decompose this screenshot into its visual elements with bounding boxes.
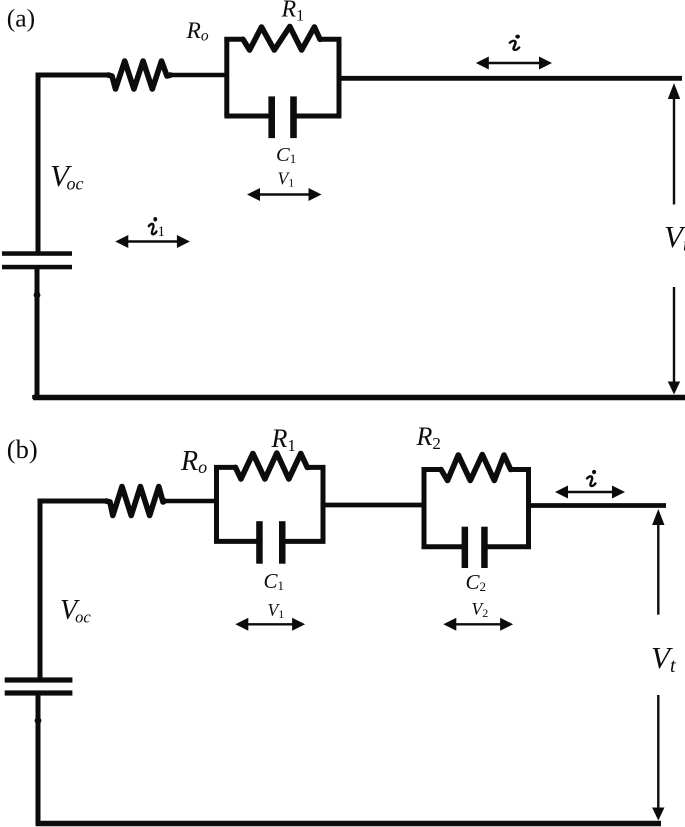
current arrow i1 (a)	[115, 235, 190, 248]
node: RC box 1 (b) right branch vertical	[321, 465, 326, 541]
wire: RC box (a) bottom-left segment	[224, 114, 269, 119]
wire: (b) bottom rail	[36, 821, 661, 827]
voltage arrow V2 (b)	[443, 618, 513, 631]
wire: RC box 1 (b) bottom-left segment	[214, 539, 257, 544]
wire: between RC box 1 and RC box 2 (b)	[323, 503, 426, 508]
svg-text:(a): (a)	[7, 3, 35, 32]
wire: RC box 2 (b) bottom-right segment	[487, 544, 531, 549]
resistor R2 (b)	[441, 455, 511, 481]
resistor Ro (a)	[108, 61, 171, 89]
voltage arrow V1 (a)	[247, 188, 322, 201]
resistor R1 (a)	[243, 27, 320, 51]
voltage arrow V1 (b)	[235, 618, 305, 631]
resistor R1 (b)	[236, 453, 308, 479]
svg-text:(b): (b)	[7, 434, 38, 464]
wire: top-right of (a) from box to right edge	[339, 76, 682, 81]
node: RC box 2 (b) right branch vertical	[526, 467, 531, 547]
wire: top-right of (b) from box 2 to Vt	[529, 503, 667, 508]
capacitor C1 (b) left plate	[256, 521, 263, 564]
node: RC box 1 (b) left branch vertical	[214, 465, 219, 541]
wire: RC box (a) top-left segment	[224, 37, 244, 42]
capacitor C1 (b) right plate	[279, 521, 286, 564]
wire: RC box 2 (b) top-left segment	[422, 467, 443, 472]
wire: RC box 1 (b) top-left segment	[214, 465, 237, 470]
node: RC box (a) right branch vertical	[337, 37, 342, 116]
svg-text:1: 1	[158, 224, 166, 240]
current arrow i (b)	[555, 486, 625, 499]
wire: (b) top-left corner and left rail upper segment	[40, 501, 106, 678]
capacitor C2 (b) left plate	[462, 527, 469, 568]
resistor Ro (b)	[106, 487, 165, 516]
battery Voc (a) top plate	[2, 251, 72, 256]
voltage arrow Vt (b) upper segment	[652, 509, 664, 615]
wire: RC box (a) top-right segment	[319, 37, 341, 42]
wire: RC box (a) bottom-right segment	[296, 114, 341, 119]
wire: RC box 2 (b) top-right segment	[509, 467, 531, 472]
svg-text:Vt: Vt	[664, 219, 685, 256]
wire: (b) left rail lower segment	[36, 694, 41, 825]
battery Voc (a) bottom plate	[2, 265, 72, 270]
wire: RC box 1 (b) bottom-right segment	[285, 539, 326, 544]
capacitor C2 (b) right plate	[481, 527, 488, 568]
node: junction dot on (b) left rail	[35, 717, 42, 724]
wire: (a) bottom rail	[33, 395, 685, 399]
battery Voc (b) top plate	[5, 677, 73, 682]
battery Voc (b) bottom plate	[5, 690, 73, 695]
capacitor C1 (a) left plate	[268, 96, 275, 138]
voltage arrow Vt (a) lower segment	[668, 287, 680, 395]
current arrow i (a)	[476, 57, 552, 70]
voltage arrow Vt (a) upper segment	[668, 83, 680, 205]
label i (b)	[587, 470, 596, 486]
wire: RC box 2 (b) bottom-left segment	[422, 544, 463, 549]
wire: (a) left rail lower segment	[35, 269, 40, 399]
voltage arrow Vt (b) lower segment	[652, 695, 664, 821]
wire: (a) top-left corner and left rail upper segment	[38, 75, 108, 252]
node: RC box (a) left branch vertical	[224, 37, 229, 116]
capacitor C1 (a) right plate	[290, 96, 297, 138]
node: junction dot on (a) left rail	[34, 292, 41, 299]
wire: Ro (a) to RC box (a)	[171, 73, 229, 78]
wire: RC box 1 (b) top-right segment	[306, 465, 326, 470]
label i (a)	[510, 35, 520, 50]
node: RC box 2 (b) left branch vertical	[422, 467, 427, 547]
wire: Ro (b) to RC box 1	[165, 499, 220, 504]
label i1 (a)	[149, 217, 157, 234]
